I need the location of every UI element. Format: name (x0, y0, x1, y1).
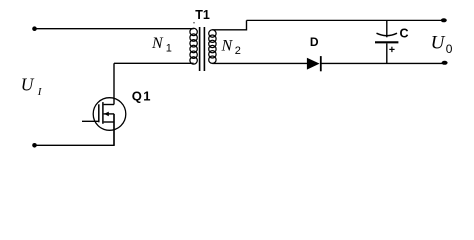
svg-text:N: N (221, 38, 234, 55)
svg-text:D: D (310, 35, 319, 49)
svg-text:U: U (21, 74, 35, 94)
svg-text:U: U (431, 33, 446, 54)
svg-text:T1: T1 (195, 8, 210, 22)
svg-text:Q1: Q1 (132, 89, 152, 104)
svg-text:C: C (400, 26, 409, 40)
svg-text:0: 0 (446, 42, 453, 56)
svg-text:N: N (151, 35, 164, 52)
svg-text:2: 2 (235, 45, 241, 57)
svg-text:1: 1 (166, 42, 172, 54)
